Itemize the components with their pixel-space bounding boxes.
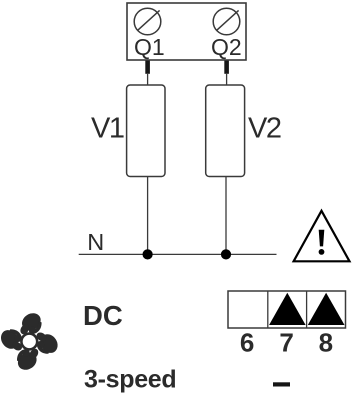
svg-text:8: 8 (319, 328, 333, 358)
svg-text:Q2: Q2 (211, 34, 242, 60)
svg-text:N: N (87, 229, 104, 255)
svg-text:V1: V1 (91, 112, 124, 144)
svg-text:V2: V2 (248, 112, 281, 144)
svg-text:DC: DC (83, 300, 123, 331)
svg-text:Q1: Q1 (134, 34, 165, 60)
svg-text:6: 6 (240, 328, 254, 358)
svg-text:3-speed: 3-speed (84, 366, 176, 394)
svg-text:7: 7 (279, 328, 293, 358)
